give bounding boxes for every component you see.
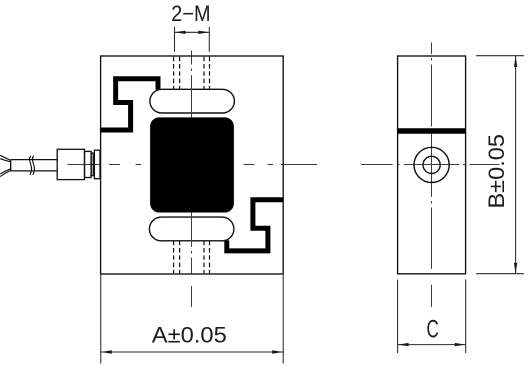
svg-text:2−M: 2−M bbox=[171, 1, 210, 26]
svg-text:C: C bbox=[427, 315, 439, 343]
svg-text:A±0.05: A±0.05 bbox=[152, 323, 227, 348]
svg-text:B±0.05: B±0.05 bbox=[484, 134, 509, 209]
